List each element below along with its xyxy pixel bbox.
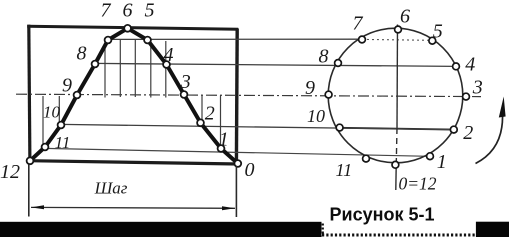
rotation arrow head [499, 97, 506, 118]
dimension arrow right [222, 206, 235, 210]
svg-text:4: 4 [164, 44, 174, 66]
chord 10-2 bold [340, 128, 454, 130]
dimension line [31, 206, 235, 209]
rectangle bottom edge [29, 161, 239, 164]
circle point 7 [359, 36, 366, 43]
dimension arrow left [31, 205, 44, 209]
curve point 4 [163, 61, 170, 68]
svg-text:6: 6 [400, 6, 410, 28]
svg-text:0=12: 0=12 [399, 174, 437, 194]
construction line level 10-2 [61, 124, 454, 129]
division vertical h [201, 96, 203, 127]
svg-text:8: 8 [77, 43, 87, 65]
circle point 0-12 [392, 161, 399, 168]
svg-text:8: 8 [319, 46, 329, 68]
perforated left edge [322, 224, 324, 237]
circle point 8 [335, 60, 342, 67]
division vertical i [220, 96, 222, 149]
rotation arrow arc [476, 113, 503, 164]
circle point 11 [363, 155, 370, 162]
circle point 2 [450, 126, 457, 133]
circle point 4 [453, 63, 460, 70]
division vertical e [165, 41, 167, 98]
division vertical c [134, 40, 136, 98]
generating circle [328, 28, 463, 163]
svg-text:11: 11 [335, 160, 352, 180]
circle point 9 [325, 91, 332, 98]
svg-text:2: 2 [463, 122, 473, 144]
svg-text:10: 10 [43, 103, 61, 122]
curve point 8 [92, 61, 99, 68]
curve point 11 [42, 144, 49, 151]
svg-text:10: 10 [307, 106, 325, 126]
circle point 10 [336, 124, 343, 131]
dashed chord 7-5 on circle [362, 38, 431, 41]
construction line level 7-5 [108, 38, 363, 40]
division vertical b [119, 40, 121, 98]
curve point 12 [27, 157, 34, 164]
rectangle top edge [27, 26, 238, 29]
rectangle right edge [235, 29, 239, 165]
svg-text:9: 9 [305, 77, 315, 99]
rectangle left edge [29, 25, 30, 162]
construction line level 8-4 [95, 63, 456, 66]
svg-text:2: 2 [205, 103, 215, 125]
circle vertical diameter lower dashed [395, 128, 398, 162]
svg-text:0: 0 [245, 159, 255, 181]
circle point 5 [429, 37, 436, 44]
circle point 6 [395, 26, 402, 33]
curve point 9 [74, 92, 81, 99]
svg-text:4: 4 [465, 54, 475, 76]
svg-text:6: 6 [123, 0, 133, 22]
division vertical a [104, 42, 106, 98]
svg-text:Шаг: Шаг [94, 179, 128, 198]
svg-text:3: 3 [180, 71, 191, 93]
svg-text:3: 3 [472, 77, 483, 99]
svg-text:1: 1 [219, 129, 229, 151]
curve point 6 [124, 25, 131, 32]
curve point 2 [197, 119, 204, 126]
svg-text:5: 5 [433, 21, 443, 43]
svg-text:12: 12 [0, 161, 20, 183]
svg-text:1: 1 [437, 151, 447, 173]
black scan bar left [0, 222, 322, 237]
curve point 5 [144, 37, 151, 44]
circle point 3 [463, 93, 470, 100]
curve point 7 [105, 37, 112, 44]
dimension extension line left [28, 165, 30, 217]
curve point 1 [218, 145, 225, 152]
black scan bar right [476, 222, 509, 237]
construction line level 11-1 [45, 148, 430, 156]
sine curve [30, 28, 238, 163]
svg-text:Рисунок 5-1: Рисунок 5-1 [330, 204, 435, 224]
svg-text:7: 7 [353, 13, 364, 35]
division vertical g [58, 96, 60, 125]
svg-text:5: 5 [145, 0, 155, 22]
svg-text:9: 9 [62, 75, 72, 97]
axis dash-dot line level 9-3 [16, 94, 481, 96]
svg-text:11: 11 [55, 133, 71, 152]
circle vertical tick below [395, 166, 397, 190]
svg-text:7: 7 [101, 0, 112, 22]
curve point 3 [181, 91, 188, 98]
curve point 10 [58, 122, 65, 129]
curve point 0 [234, 160, 241, 167]
division vertical d [150, 40, 152, 98]
perforated bottom edge [322, 234, 476, 237]
circle vertical diameter upper [396, 25, 399, 129]
circle point 1 [427, 153, 434, 160]
dimension extension line right [235, 166, 237, 217]
division vertical f [42, 96, 44, 149]
